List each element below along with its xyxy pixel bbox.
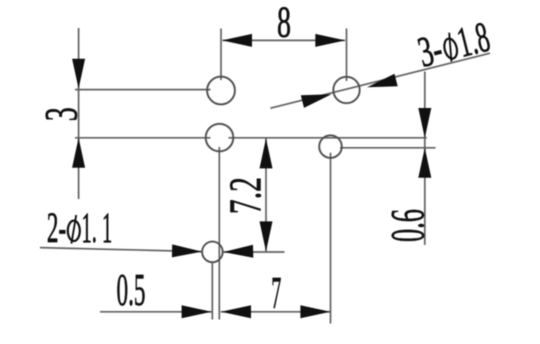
arrow leader B lower-left bbox=[301, 94, 332, 108]
hole E bottom bbox=[202, 242, 223, 263]
svg-text:8: 8 bbox=[277, 0, 291, 47]
svg-text:2-: 2- bbox=[47, 205, 66, 252]
wire: extension line middle row left bbox=[75, 137, 210, 139]
label 7.2 (rotated) bbox=[220, 177, 270, 214]
hole B top-right bbox=[333, 77, 359, 103]
arrow dim-0.6 bottom bbox=[418, 148, 431, 178]
wire: leader line 2-dia1.1 bbox=[40, 248, 202, 252]
hole D middle-right bbox=[319, 135, 342, 158]
arrow dim-8 left bbox=[222, 34, 252, 47]
wire: extension line column D down bbox=[330, 153, 332, 324]
arrow dim-8 right bbox=[315, 34, 345, 47]
label 3-dia1.8 (on leader) bbox=[414, 14, 495, 77]
wire: dim-0.6 vertical dimension line bbox=[424, 72, 426, 246]
arrow dim-7.2 bottom bbox=[260, 221, 273, 251]
arrow dim-7.2 top bbox=[260, 138, 273, 168]
label 0.6 (rotated) bbox=[381, 209, 434, 242]
wire: extension line column E down bbox=[211, 262, 213, 320]
wire: dim-0.5 dimension line bbox=[100, 311, 212, 313]
svg-text:1. 1: 1. 1 bbox=[82, 205, 113, 252]
arrow dim-3 top bbox=[72, 59, 85, 89]
arrow leader B upper-right bbox=[367, 74, 398, 88]
wire: extension line above hole A bbox=[220, 29, 222, 81]
wire: extension line above hole B bbox=[346, 29, 348, 82]
wire: dim-3 vertical dimension line bbox=[78, 28, 80, 199]
wire: leader line 3-dia1.8 bbox=[270, 53, 490, 108]
label 2-dia1.1 bbox=[47, 205, 112, 252]
arrow dim-7 right bbox=[300, 305, 330, 318]
arrow dim-0.6 top bbox=[418, 108, 431, 138]
wire: dim-8 dimension line bbox=[223, 39, 346, 41]
arrow dim-3 bottom bbox=[72, 138, 85, 168]
wire: dim-7.2 vertical dimension line bbox=[265, 138, 267, 251]
svg-text:7: 7 bbox=[271, 267, 281, 318]
wire: extension line hole D row bbox=[340, 147, 436, 149]
arrow dim-7 left bbox=[221, 305, 251, 318]
svg-text:7.2: 7.2 bbox=[220, 177, 270, 214]
arrow dim-0.5 bbox=[182, 305, 212, 318]
wire: extension line column C down bbox=[218, 147, 220, 320]
hole C middle-left bbox=[206, 124, 234, 152]
svg-text:3: 3 bbox=[36, 107, 88, 121]
wire: leader tail right of hole E bbox=[223, 251, 285, 253]
svg-text:0.6: 0.6 bbox=[381, 209, 434, 242]
wire: extension line middle row right bbox=[229, 137, 427, 139]
label 3 (rotated) bbox=[36, 107, 88, 121]
wire: dim-7 dimension line bbox=[221, 311, 330, 313]
arrow leader E right bbox=[223, 245, 253, 258]
arrow leader E left bbox=[172, 244, 202, 257]
wire: extension line top row bbox=[75, 89, 211, 91]
hole A top-left bbox=[207, 77, 235, 105]
svg-text:0.5: 0.5 bbox=[117, 264, 146, 315]
